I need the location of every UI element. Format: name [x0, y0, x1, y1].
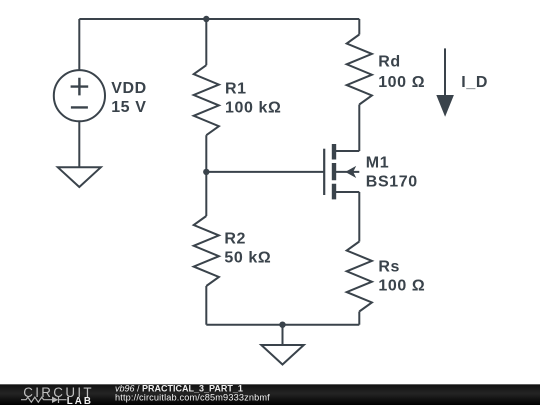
svg-text:100 Ω: 100 Ω: [378, 74, 425, 91]
wire node A to R2: [205, 172, 207, 216]
svg-text:BS170: BS170: [366, 173, 418, 190]
node junction dot bottom rail / ground: [279, 322, 285, 328]
wire VDD source to top rail: [78, 19, 80, 70]
current arrow I_D: [436, 48, 454, 116]
wire M1 source to Rs: [358, 192, 360, 242]
svg-text:R2: R2: [224, 231, 246, 248]
resistor Rd (100 Ω): [347, 35, 372, 105]
voltage source V1 (VDD 15 V) body: [54, 70, 105, 121]
svg-text:50 kΩ: 50 kΩ: [224, 250, 271, 267]
wire bottom rail to ground stub: [282, 325, 284, 345]
resistor R1 (100 kΩ): [194, 65, 219, 135]
wire Rd to top rail: [358, 19, 360, 35]
wire R1 to node A: [205, 135, 207, 172]
resistor R2 (50 kΩ): [194, 216, 219, 286]
svg-text:VDD: VDD: [111, 80, 147, 97]
wire gate (node A to M1 gate): [206, 171, 324, 173]
svg-text:100 Ω: 100 Ω: [378, 277, 425, 294]
footer bar: [0, 384, 540, 405]
svg-text:LAB: LAB: [67, 396, 93, 405]
node A junction dot (divider / gate): [203, 169, 209, 175]
svg-text:Rd: Rd: [378, 54, 401, 71]
ground symbol GND2: [261, 345, 304, 365]
svg-text:100 kΩ: 100 kΩ: [225, 100, 281, 117]
wire bottom rail: [206, 324, 359, 326]
wire VDD source to ground: [78, 121, 80, 167]
wire R2 to bottom rail: [205, 286, 207, 325]
ground symbol GND1: [58, 167, 101, 187]
wire top rail (VDD net): [79, 18, 359, 20]
svg-text:I_D: I_D: [461, 74, 488, 91]
svg-text:Rs: Rs: [378, 258, 400, 275]
transistor M1 (NMOS BS170): [324, 144, 359, 199]
resistor Rs (100 Ω): [347, 242, 372, 312]
CircuitLab logo resistor-diode glyph: [21, 397, 67, 404]
node junction dot top rail / R1: [203, 16, 209, 22]
svg-text:M1: M1: [366, 155, 389, 172]
wire M1 drain to Rd: [358, 105, 360, 152]
svg-text:R1: R1: [225, 80, 247, 97]
svg-text:15 V: 15 V: [111, 99, 146, 116]
wire Rs to bottom rail: [358, 312, 360, 325]
wire top rail to R1: [205, 19, 207, 65]
svg-text:http://circuitlab.com/c85m9333: http://circuitlab.com/c85m9333znbmf: [115, 392, 270, 402]
